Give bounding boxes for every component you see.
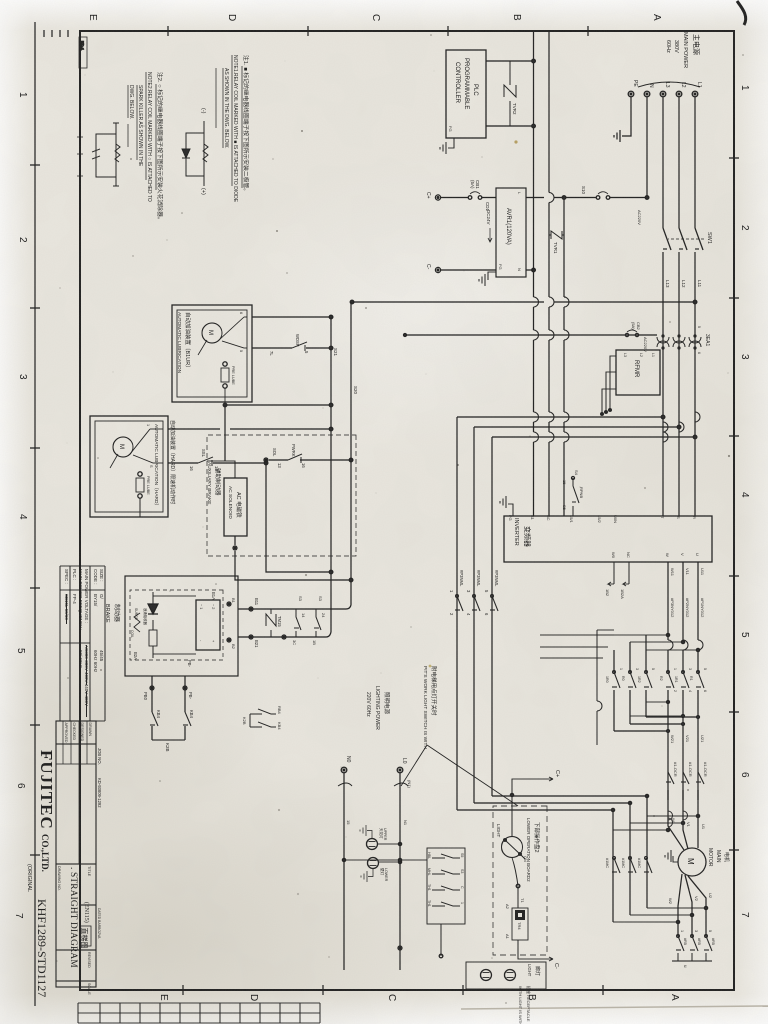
TVR1 arrester xyxy=(562,196,569,516)
bypass loop right risers xyxy=(613,814,700,831)
KB4 contact 2 xyxy=(150,712,158,726)
breaker SW1 pole 1 xyxy=(695,228,703,250)
KB4 contact 1 xyxy=(183,712,191,726)
lub2 riser wire xyxy=(168,419,333,431)
N0 terminal xyxy=(341,767,347,773)
PLC riser wires xyxy=(486,61,534,126)
rectifier box xyxy=(196,600,220,650)
drawing no label xyxy=(57,866,91,995)
switch group box xyxy=(427,848,465,924)
zone letters left margin xyxy=(87,14,662,21)
bypass line 1 xyxy=(646,635,698,908)
receptacle note text xyxy=(518,986,532,1024)
switch box feeder xyxy=(342,858,427,861)
zone ticks top edge xyxy=(729,158,739,850)
control bus 2 xyxy=(532,31,539,516)
switch branch 2 xyxy=(432,870,460,874)
S20 tag xyxy=(333,348,358,395)
brake box xyxy=(125,576,238,676)
hop of solenoid wire over lub2 riser xyxy=(225,424,230,434)
main power label xyxy=(665,32,701,68)
TVR1 arrester xyxy=(549,231,564,239)
AVR FG ground xyxy=(479,272,496,286)
title cell xyxy=(87,866,91,877)
lower lamp ground xyxy=(361,869,373,883)
inverter input pin labels xyxy=(530,515,697,524)
contact bank lower row2 xyxy=(628,671,636,688)
motor label xyxy=(707,848,730,867)
CT 3EA1 on L2 xyxy=(673,332,685,352)
feeder wire x335 CT secondary xyxy=(404,334,658,337)
drawn/designed/checked/approved rows xyxy=(56,721,96,864)
AVR output wire C minus xyxy=(441,269,496,271)
lubricator 1 pre-lube xyxy=(221,362,229,402)
lighting header note xyxy=(422,666,438,749)
CT 3EA1 on L3 xyxy=(657,332,669,352)
note 1 text xyxy=(223,55,250,203)
W0 stub arrow xyxy=(608,562,614,586)
zone numbers bottom margin xyxy=(13,92,28,919)
breaker SW1 pole 2 xyxy=(679,228,687,250)
auxiliary brake label xyxy=(206,462,222,504)
P3NML labels xyxy=(449,570,499,616)
R5 contact row3 xyxy=(676,935,684,961)
suppressor varistor zigzag xyxy=(134,613,140,632)
hop of control line over feeder xyxy=(549,297,554,307)
hop bumps on output lines xyxy=(668,640,703,650)
lub2 SSL wire xyxy=(168,461,268,465)
ceiling lamp ground xyxy=(360,825,372,839)
SOL terminal xyxy=(264,458,268,462)
CB2 breaker on feeder xyxy=(625,330,638,337)
R5 contact row2 xyxy=(690,935,698,961)
TVR2 arrester branch xyxy=(504,61,516,126)
terminal PE xyxy=(628,91,634,97)
operation board dashed box xyxy=(493,806,547,955)
TM15 arrester xyxy=(266,609,276,637)
control rail 2 xyxy=(330,317,332,632)
motor ground xyxy=(665,850,678,862)
spec strike-through marks xyxy=(67,594,87,717)
lamp to relay wire xyxy=(512,858,520,909)
CB1 breaker contact xyxy=(468,192,482,200)
inverter FG ground xyxy=(500,496,513,516)
L0 wire xyxy=(398,773,402,970)
S3 rung 2 xyxy=(294,609,301,637)
S10 breaker contact xyxy=(596,192,610,200)
big loop line 1 xyxy=(457,415,665,811)
lub1 WDSP wire xyxy=(252,346,333,350)
leader lines xyxy=(401,745,518,806)
brake output wire PB2 xyxy=(150,676,154,740)
big loop line 3 xyxy=(492,435,697,797)
rail hops over loop risers xyxy=(663,412,700,442)
P3NML contact on loop3 xyxy=(455,595,463,611)
extra line y171 xyxy=(597,630,614,745)
switch box right wire xyxy=(439,924,443,958)
zone ticks left edge xyxy=(168,26,588,36)
overload relay 1-OCR row3 xyxy=(666,768,674,790)
N1 tag xyxy=(346,780,412,826)
lubricator box 2 xyxy=(90,416,168,517)
N feeder down to AVR xyxy=(526,196,649,200)
inverter box xyxy=(504,516,712,562)
control rail 1 xyxy=(350,302,352,605)
DC24V arrow xyxy=(488,228,492,242)
lighting power label xyxy=(365,686,391,730)
small revision box on bottom frame line xyxy=(79,37,87,68)
ruler ticks on inner bottom line xyxy=(77,137,83,176)
PE ground xyxy=(614,130,620,142)
hall lamp 2 xyxy=(481,970,492,981)
NC stub arrow xyxy=(623,562,629,586)
bypass right risers to motor leads xyxy=(613,906,708,923)
C plus entry xyxy=(512,777,553,795)
switch branch 1 xyxy=(432,854,460,858)
terminal L3 xyxy=(660,91,666,97)
zone numbers top margin xyxy=(739,85,750,918)
P3NML contact on loop2 xyxy=(472,595,480,611)
cab light lamp with switch xyxy=(502,793,526,859)
hall lamp 1 xyxy=(505,970,516,981)
lubricator 1 label xyxy=(176,312,192,374)
RFMR box xyxy=(616,350,660,395)
scale bar grid outside frame xyxy=(78,1003,320,1023)
1MC contact on bypass 1 xyxy=(644,857,652,873)
solenoid left wire xyxy=(207,461,235,478)
drawing frame inner border xyxy=(80,31,734,990)
lubricator 1 switch blades xyxy=(198,317,247,355)
1MC contact on bypass 2 xyxy=(628,857,636,873)
CT 3EA1 on L1 xyxy=(689,332,701,352)
B21 terminal xyxy=(249,635,286,639)
WDSP contact xyxy=(292,342,307,351)
zone ticks right edge xyxy=(183,985,603,995)
AVR box xyxy=(496,188,526,277)
lub1 wire to rail2 xyxy=(252,315,333,319)
RPNB contact branch xyxy=(572,477,580,517)
note 2 text xyxy=(128,72,164,223)
solenoid right wire xyxy=(233,536,353,582)
lower lamp xyxy=(368,858,402,869)
drawing number KHF1289 xyxy=(35,899,49,997)
output line U xyxy=(697,562,699,800)
ceiling lamp xyxy=(367,839,402,850)
lubricator 2 label xyxy=(153,420,176,508)
AVR output wire C plus xyxy=(441,197,496,199)
U21 V21 W21 labels xyxy=(670,735,705,744)
SSL contact xyxy=(198,457,213,466)
control bus 1 xyxy=(548,31,550,516)
breaker SW1 pole 3 xyxy=(663,228,671,250)
operation board label xyxy=(526,818,541,882)
N rail xyxy=(646,97,648,198)
hop of control line 1 over N feeder xyxy=(549,193,554,203)
overload relay 1-OCR row2 xyxy=(681,768,689,790)
note 2 spark killer symbol xyxy=(92,123,120,186)
terminal L1 xyxy=(692,91,698,97)
boxed chinese title xyxy=(80,926,91,946)
note 2 underlines xyxy=(128,72,156,190)
big loop line 2 xyxy=(474,425,681,804)
suppressor risers xyxy=(153,596,196,654)
S3 rung 1 xyxy=(314,609,321,637)
interconnect verticals right of bank xyxy=(630,701,685,718)
R5 contact row1 xyxy=(704,935,712,961)
FUJITEC logo xyxy=(37,750,56,872)
tap stubs below bank xyxy=(540,635,614,658)
dated row tiny xyxy=(97,908,101,939)
brake label xyxy=(104,604,121,623)
bypass line 2 xyxy=(630,642,683,915)
note 1 underlines xyxy=(216,55,242,188)
1MC contact on bypass 3 xyxy=(612,857,620,873)
zone letters right margin xyxy=(158,994,680,1001)
feeder wire x302 from L1 to control rail xyxy=(350,300,697,304)
PWRK contact xyxy=(288,454,302,463)
lighting bracket xyxy=(338,783,408,786)
inverter output pin labels xyxy=(611,552,700,559)
wire y502 xyxy=(266,462,333,574)
contact bank upper row2 xyxy=(681,671,689,688)
motor lower leads to right xyxy=(678,874,706,936)
L2 rail xyxy=(678,97,680,516)
TR4 relay coil xyxy=(512,908,528,940)
job no xyxy=(97,748,102,808)
contact bank upper row1 xyxy=(696,671,704,688)
bypass line 3 xyxy=(613,650,668,922)
lubricator box 1 xyxy=(172,305,252,402)
switch branch 3 xyxy=(432,886,460,890)
PLC ground xyxy=(440,138,454,154)
P3NML contact on loop1 xyxy=(490,595,498,611)
output line W xyxy=(667,562,669,800)
title block outline xyxy=(56,721,96,987)
main motor xyxy=(678,848,706,876)
auxiliary brake dashed box xyxy=(207,435,356,556)
spec table xyxy=(60,566,105,721)
overload relay 1-OCR row1 xyxy=(696,768,704,790)
original mark xyxy=(26,864,32,892)
C minus exit xyxy=(518,940,553,961)
rail1 elbow to brake wire B11 xyxy=(238,605,351,609)
suppressor chain xyxy=(148,592,158,658)
B11 terminal xyxy=(249,607,253,611)
motor leads labels U1 V1 W1 xyxy=(671,818,706,830)
AC220V tag on feeder xyxy=(637,210,648,352)
spec table text xyxy=(64,569,104,706)
switch branch 4 xyxy=(432,902,460,906)
PE wire xyxy=(622,97,631,136)
contact bank lower row1 xyxy=(644,671,652,688)
suppressor tiny text xyxy=(130,608,148,638)
bypass taps from outputs xyxy=(614,633,700,651)
L11 L12 L13 labels xyxy=(665,280,702,288)
terminal N xyxy=(644,91,650,97)
output line V xyxy=(682,562,684,800)
L3 rail xyxy=(662,97,664,516)
#P1NY012 labels xyxy=(670,598,705,618)
wire lub1 to solenoid xyxy=(224,405,226,461)
outer sheet border bottom line xyxy=(34,22,36,1006)
K2B join bar xyxy=(152,739,185,741)
corner ruler marks bottom-left margin xyxy=(44,30,68,37)
C minus terminal xyxy=(435,267,440,272)
contact bank lower row3 xyxy=(612,671,620,688)
switch labels xyxy=(427,852,464,907)
contact bank upper row3 xyxy=(666,671,674,688)
zone ticks bottom outer edge xyxy=(30,165,40,855)
note 1 diode symbol xyxy=(182,121,208,186)
PWRK wire xyxy=(269,458,353,462)
RFMR bottom stubs xyxy=(601,356,616,415)
N0 wire xyxy=(343,773,345,970)
inverter label xyxy=(513,518,532,547)
brake suppressor dashed box xyxy=(130,590,223,660)
lubricator 2 motor xyxy=(113,437,133,457)
brake coil terminals xyxy=(227,602,231,642)
C plus terminal xyxy=(435,195,440,200)
hops of direct lines over 1MC feed risers xyxy=(666,715,699,827)
star point bar xyxy=(672,960,712,962)
lubricator 2 pre-lube xyxy=(136,472,144,517)
L0 terminal xyxy=(397,767,403,773)
rail2 elbow to brake wire B21 xyxy=(238,632,331,637)
RB4 KB4 auxiliary contact pair xyxy=(250,709,276,727)
title text STRAIGHT DIAGRAM xyxy=(68,867,90,968)
lubricator 1 motor xyxy=(202,323,222,343)
AVR N riser xyxy=(526,269,534,271)
brake output wire PB1 xyxy=(183,676,187,740)
hall light box xyxy=(466,962,546,989)
U11 V11 W11 labels xyxy=(670,568,705,577)
motor fan-in from OCR xyxy=(668,790,698,850)
PLC box xyxy=(446,50,486,138)
cable bracket xyxy=(638,82,700,87)
AC solenoid box xyxy=(224,478,247,536)
terminal L2 xyxy=(676,91,682,97)
SW1 mechanical link xyxy=(668,238,704,240)
junction wire x405 xyxy=(223,403,333,407)
lubricator 2 switch blades xyxy=(110,429,163,468)
L1 rail xyxy=(694,97,696,516)
